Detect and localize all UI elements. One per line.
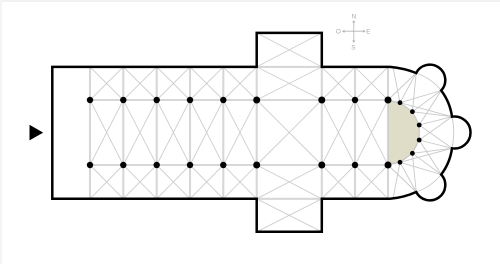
- nave columns, north row: [87, 97, 392, 104]
- west entrance marker (triangle): [30, 125, 44, 141]
- rib vault crosses, bay 1: [90, 67, 123, 199]
- rib vault cross, north transept arm: [257, 33, 322, 67]
- transverse arch line, column axis 8: [354, 67, 356, 199]
- rib vault crosses, bay 2: [123, 67, 156, 199]
- transverse arch line, column axis 2: [122, 67, 124, 199]
- transverse arch line, column axis 1: [89, 67, 91, 199]
- nave columns, south row: [87, 162, 392, 169]
- transverse arch line, column axis 9: [387, 67, 389, 199]
- north arcade line: [90, 99, 388, 101]
- svg-text:N: N: [351, 13, 356, 20]
- svg-text:E: E: [366, 29, 370, 36]
- rib vault cross, south transept arm: [257, 199, 322, 232]
- rib vault crosses, bay 4: [190, 67, 223, 199]
- choir sanctuary area (shaded): [389, 102, 420, 164]
- transverse arch line, column axis 6: [256, 67, 258, 199]
- hemicycle arcade chords: [388, 100, 419, 165]
- rib vault crosses, bay 5: [223, 67, 256, 199]
- rib vault crosses, bay 6: [257, 67, 322, 199]
- hemicycle columns: [398, 100, 422, 164]
- ambulatory and chevet vault ribs: [388, 67, 454, 199]
- south wall line across crossing opening: [257, 198, 322, 200]
- rib vault crosses, bay 3: [157, 67, 190, 199]
- transverse arch line, column axis 4: [189, 67, 191, 199]
- compass rose: [336, 13, 370, 51]
- transverse arch line, column axis 5: [222, 67, 224, 199]
- transverse arch line, column axis 3: [156, 67, 158, 199]
- south arcade line: [90, 164, 388, 166]
- north wall line across crossing opening: [257, 66, 322, 68]
- rib vault crosses, bay 8: [355, 67, 388, 199]
- svg-text:S: S: [351, 45, 355, 52]
- transverse arch line, column axis 7: [321, 67, 323, 199]
- outer walls: nave, transept, choir and apse with radiating chapels: [52, 33, 470, 232]
- rib vault crosses, bay 7: [322, 67, 355, 199]
- svg-text:O: O: [336, 29, 341, 36]
